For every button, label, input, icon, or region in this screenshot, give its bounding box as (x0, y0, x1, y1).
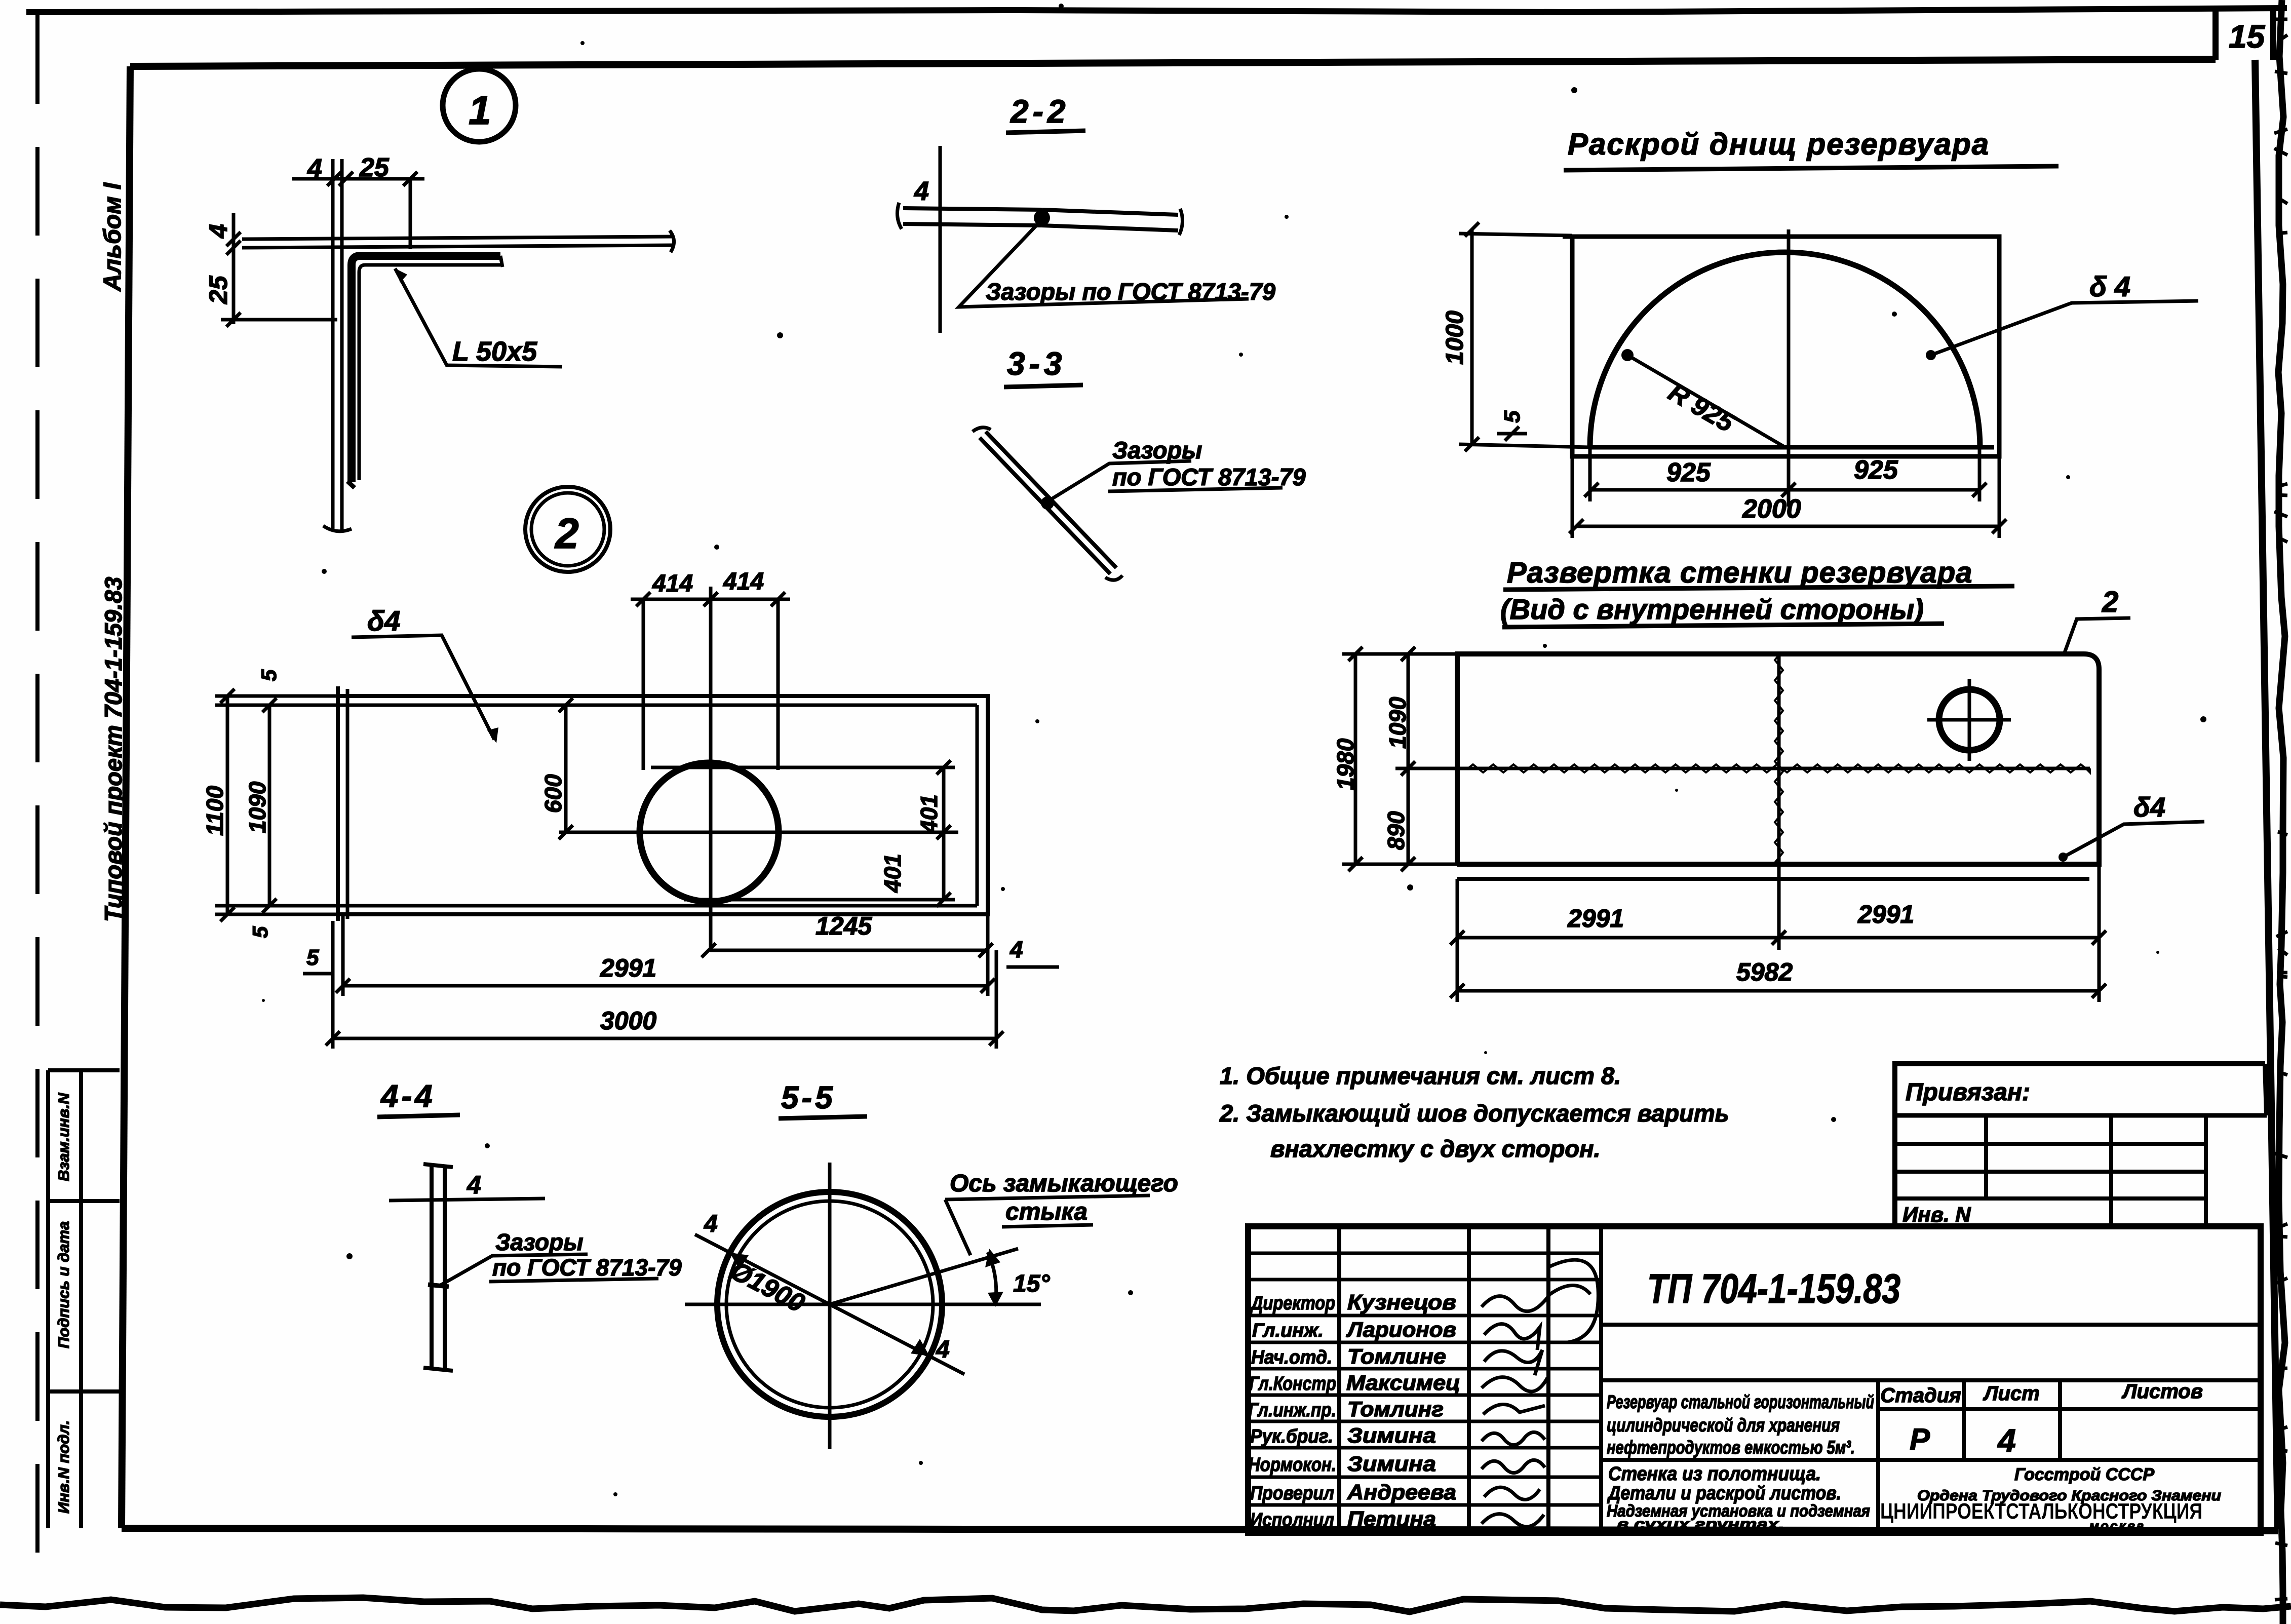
dim 3000 (333, 1037, 996, 1040)
dim 1245 (709, 949, 986, 952)
svg-text:1100: 1100 (202, 786, 228, 836)
svg-text:ТП 704-1-159.83: ТП 704-1-159.83 (1647, 1266, 1900, 1312)
bottom second line (1457, 877, 2089, 881)
svg-text:3000: 3000 (600, 1007, 656, 1035)
extension lines left (215, 696, 347, 914)
diagonal lapped sheets (980, 432, 1116, 574)
radius line with dot (1627, 355, 1783, 446)
svg-text:4-4: 4-4 (380, 1079, 436, 1114)
bottom dim 925+925 (1591, 488, 1979, 492)
left outer dim 1980 (1354, 654, 1357, 864)
svg-text:4: 4 (704, 1211, 718, 1238)
svg-text:4: 4 (1997, 1422, 2016, 1459)
svg-text:4: 4 (467, 1171, 481, 1199)
vertical dividers left section (1339, 1226, 1601, 1533)
svg-text:600: 600 (540, 774, 566, 813)
svg-text:Развертка стенки резервуара: Развертка стенки резервуара (1507, 556, 1972, 589)
svg-text:1090: 1090 (1384, 697, 1411, 749)
svg-text:4: 4 (936, 1336, 950, 1363)
svg-text:2: 2 (554, 510, 579, 557)
svg-text:5982: 5982 (1736, 958, 1793, 986)
leader: Зазоры по ГОСТ 8713-79 (1047, 461, 1191, 501)
svg-text:Ось замыкающего: Ось замыкающего (950, 1170, 1178, 1197)
crossing leader line with 4 (389, 1198, 545, 1201)
vertical dividers right section (1878, 1380, 2060, 1533)
svg-text:2: 2 (2102, 586, 2118, 618)
vertical centerline (1787, 229, 1791, 507)
svg-text:2991: 2991 (1857, 900, 1914, 929)
left dim 1090 (268, 705, 271, 906)
svg-text:Нормокон.: Нормокон. (1248, 1454, 1336, 1476)
blank rectangle (1563, 237, 1999, 456)
frame right (2255, 60, 2278, 1529)
vertical centerline (709, 587, 713, 952)
svg-text:Зазоры по ГОСТ 8713-79: Зазоры по ГОСТ 8713-79 (986, 278, 1275, 305)
svg-text:4: 4 (1009, 936, 1023, 962)
svg-text:1090: 1090 (244, 781, 270, 833)
svg-text:25: 25 (359, 153, 390, 182)
svg-text:Зимина: Зимина (1347, 1423, 1436, 1447)
svg-text:15: 15 (2229, 18, 2266, 55)
svg-text:4: 4 (204, 224, 232, 239)
svg-text:15°: 15° (1013, 1270, 1050, 1297)
svg-text:1245: 1245 (816, 912, 872, 940)
svg-text:(Вид с внутренней стороны): (Вид с внутренней стороны) (1500, 593, 1924, 625)
wall plate (vertical double line) (333, 159, 342, 531)
top scan edge line (26, 8, 2287, 12)
top dim 414 414 (631, 598, 790, 601)
svg-text:Рук.бриг.: Рук.бриг. (1250, 1426, 1333, 1447)
svg-text:4: 4 (914, 177, 929, 206)
angle L50x5 profile (352, 256, 500, 482)
bottom dim 2991+2991 (1457, 936, 2099, 940)
svg-text:5: 5 (306, 945, 319, 970)
svg-text:нефтепродуктов емкостью 5м³.: нефтепродуктов емкостью 5м³. (1607, 1437, 1855, 1458)
svg-text:Петина: Петина (1347, 1507, 1436, 1531)
dim 600 (564, 705, 568, 832)
svg-text:Привязан:: Привязан: (1906, 1079, 2030, 1106)
frame bottom (122, 1528, 2278, 1531)
manhole circle (640, 763, 779, 902)
svg-text:по ГОСТ 8713-79: по ГОСТ 8713-79 (492, 1254, 682, 1281)
bottom ragged scan edge (0, 1598, 2291, 1612)
svg-text:2991: 2991 (600, 954, 656, 982)
svg-text:цилиндрической для хранения: цилиндрической для хранения (1607, 1415, 1840, 1436)
plate inner trim rectangle (347, 689, 977, 919)
left dim 1000 (1470, 229, 1474, 444)
node circle 1 (443, 69, 516, 142)
svg-text:стыка: стыка (1005, 1198, 1088, 1225)
top dimension line 4 / 25 (292, 177, 424, 181)
svg-text:Типовой проект 704-1-159.83: Типовой проект 704-1-159.83 (100, 577, 127, 922)
svg-text:Лист: Лист (1983, 1382, 2040, 1405)
bottom chord line (1590, 445, 1994, 450)
signatures (1482, 1260, 1598, 1342)
outer box (1248, 1226, 2261, 1533)
svg-text:2000: 2000 (1742, 494, 1801, 524)
svg-text:2-2: 2-2 (1010, 93, 1070, 130)
manhole circle (1939, 689, 2000, 750)
15 degree rays (830, 1249, 1018, 1304)
svg-text:Стенка из полотнища.: Стенка из полотнища. (1608, 1463, 1821, 1485)
svg-text:Госстрой СССР: Госстрой СССР (2014, 1465, 2154, 1484)
svg-text:L 50x5: L 50x5 (452, 336, 537, 367)
bottom dim 5982 (1457, 989, 2099, 993)
svg-text:414: 414 (723, 568, 764, 595)
svg-text:1980: 1980 (1332, 738, 1358, 790)
svg-text:Инв.N подл.: Инв.N подл. (55, 1420, 72, 1514)
svg-text:в сухих грунтах.: в сухих грунтах. (1617, 1515, 1784, 1533)
svg-text:Максимец: Максимец (1346, 1371, 1460, 1395)
svg-text:Резервуар стальной горизонталь: Резервуар стальной горизонтальный (1607, 1391, 1874, 1412)
svg-text:3-3: 3-3 (1007, 345, 1066, 382)
frame top line (130, 59, 2216, 66)
svg-text:Раскрой днищ резервуара: Раскрой днищ резервуара (1568, 127, 1990, 161)
svg-text:Зазоры: Зазоры (1112, 437, 1202, 463)
vertical weld seam (1777, 655, 1781, 864)
svg-text:внахлестку с двух сторон.: внахлестку с двух сторон. (1270, 1135, 1601, 1162)
column dividers (1986, 1115, 2206, 1227)
left dim 1100 (226, 696, 229, 914)
svg-text:Гл.инж.: Гл.инж. (1252, 1320, 1324, 1341)
horizontal lines right section (1601, 1325, 2261, 1460)
right ragged scan edge (2278, 0, 2285, 1624)
right sheet bar (1042, 210, 1178, 230)
svg-text:Р: Р (1910, 1422, 1930, 1456)
leader L 50x5 (395, 268, 562, 367)
left dash-dot margin line (35, 15, 40, 1573)
svg-text:2. Замыкающий шов допускается: 2. Замыкающий шов допускается варить (1219, 1100, 1729, 1127)
svg-text:Альбом I: Альбом I (99, 182, 126, 292)
node circle 2 (525, 487, 610, 572)
left sheet bar (903, 208, 1042, 225)
dim 2991 (343, 984, 988, 988)
svg-text:Стадия: Стадия (1880, 1384, 1961, 1407)
svg-text:890: 890 (1383, 811, 1409, 850)
horizontal centerline (559, 831, 958, 834)
svg-text:Детали и раскрой листов.: Детали и раскрой листов. (1607, 1483, 1841, 1504)
left dims 1090 / 890 (1407, 654, 1410, 864)
svg-text:Зазоры: Зазоры (495, 1229, 584, 1255)
svg-text:Подпись и дата: Подпись и дата (55, 1221, 72, 1348)
svg-text:2991: 2991 (1567, 904, 1624, 933)
svg-text:δ4: δ4 (2133, 792, 2165, 823)
extension lines (1342, 654, 1469, 864)
sheet number box 15 (2212, 11, 2219, 60)
svg-text:Томлине: Томлине (1347, 1344, 1446, 1368)
joint mark (428, 1285, 449, 1287)
svg-text:5-5: 5-5 (781, 1080, 836, 1115)
svg-text:δ 4: δ 4 (2089, 270, 2130, 302)
svg-text:1000: 1000 (1442, 311, 1468, 365)
svg-text:25: 25 (204, 275, 232, 304)
svg-text:Ларионов: Ларионов (1346, 1318, 1456, 1341)
svg-text:5: 5 (1500, 410, 1525, 423)
svg-text:Директор: Директор (1250, 1293, 1335, 1314)
leader: Зазоры по ГОСТ 8713-79 (959, 224, 1249, 307)
svg-text:401: 401 (879, 854, 906, 893)
svg-text:Зимина: Зимина (1347, 1452, 1436, 1476)
svg-text:4: 4 (307, 154, 322, 183)
frame left (122, 66, 130, 1528)
svg-text:Андреева: Андреева (1347, 1480, 1456, 1504)
centerline (939, 146, 942, 333)
sidebar stamp table (48, 1070, 120, 1528)
svg-text:ЦНИИПРОЕКТСТАЛЬКОНСТРУКЦИЯ: ЦНИИПРОЕКТСТАЛЬКОНСТРУКЦИЯ (1880, 1499, 2202, 1524)
svg-text:1. Общие примечания см. лист: 1. Общие примечания см. лист 8. (1220, 1062, 1621, 1089)
svg-text:москва: москва (2089, 1518, 2146, 1533)
svg-text:5: 5 (257, 669, 281, 681)
svg-text:1: 1 (469, 88, 491, 133)
weld joint dot (1034, 210, 1050, 226)
horizontal weld seam (1468, 767, 2090, 770)
plate outer rectangle (338, 686, 988, 921)
svg-text:δ4: δ4 (367, 605, 400, 637)
header box (1895, 1064, 2267, 1227)
svg-text:Гл.Констр: Гл.Констр (1249, 1373, 1336, 1395)
svg-text:414: 414 (652, 570, 693, 597)
crosshair centerlines (685, 1163, 1041, 1449)
svg-text:Нач.отд.: Нач.отд. (1251, 1347, 1332, 1368)
bottom dim 2000 (1576, 525, 1999, 528)
svg-text:Проверил: Проверил (1250, 1483, 1334, 1504)
joint dot (1041, 496, 1054, 510)
horizontal lines left section (1248, 1253, 1601, 1505)
svg-text:Исполнил: Исполнил (1250, 1510, 1334, 1531)
rows (1895, 1144, 2206, 1227)
svg-text:Кузнецов: Кузнецов (1347, 1290, 1456, 1314)
leader: Зазоры по ГОСТ 8713-79 (440, 1254, 588, 1286)
floor plate (horizontal double line) (242, 237, 674, 248)
svg-text:5: 5 (248, 926, 272, 938)
diameter dimension line (695, 1234, 964, 1374)
svg-text:Томлинг: Томлинг (1347, 1397, 1444, 1421)
svg-text:925: 925 (1666, 458, 1711, 487)
leader b4 (1926, 350, 1936, 360)
semicircle R925 (1590, 252, 1980, 447)
development rectangle (1457, 654, 2099, 864)
svg-text:401: 401 (916, 794, 942, 834)
svg-text:Гл.инж.пр.: Гл.инж.пр. (1248, 1400, 1336, 1421)
vertical sheet edge (double line) (432, 1167, 445, 1369)
svg-text:925: 925 (1854, 455, 1898, 485)
svg-text:Инв. N: Инв. N (1902, 1203, 1971, 1226)
svg-text:Взам.инв.N: Взам.инв.N (55, 1093, 72, 1181)
right dims 401 401 (942, 767, 946, 900)
svg-text:Листов: Листов (2121, 1380, 2203, 1403)
shell ring (double circle) (717, 1192, 942, 1417)
